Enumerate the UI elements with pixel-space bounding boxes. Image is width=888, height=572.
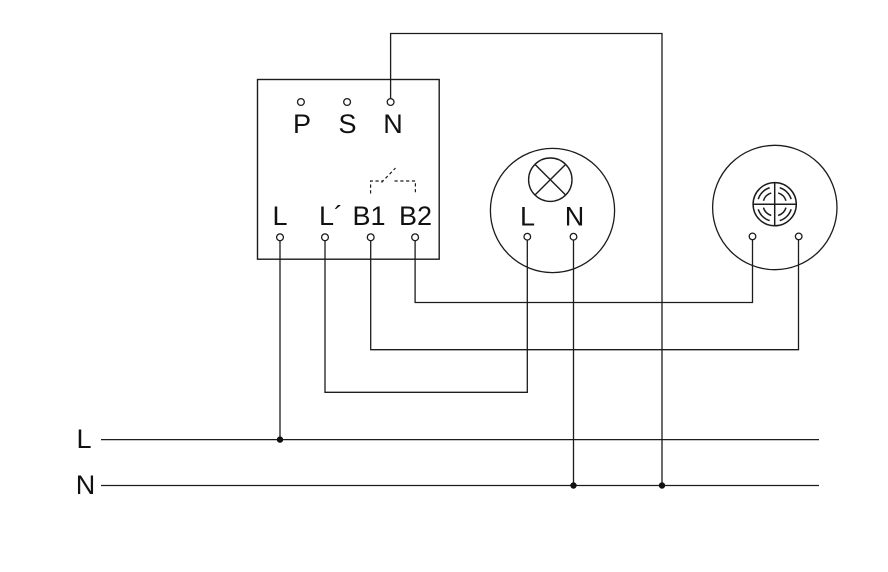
svg-text:B2: B2 bbox=[399, 201, 432, 231]
svg-text:L: L bbox=[520, 202, 535, 232]
svg-text:N: N bbox=[76, 470, 96, 500]
svg-text:P: P bbox=[293, 109, 311, 139]
svg-text:N: N bbox=[565, 202, 585, 232]
svg-text:L: L bbox=[76, 424, 91, 454]
svg-text:S: S bbox=[338, 109, 356, 139]
svg-text:N: N bbox=[383, 109, 403, 139]
svg-text:B1: B1 bbox=[352, 201, 385, 231]
svg-text:L´: L´ bbox=[319, 201, 343, 231]
svg-text:L: L bbox=[272, 201, 287, 231]
